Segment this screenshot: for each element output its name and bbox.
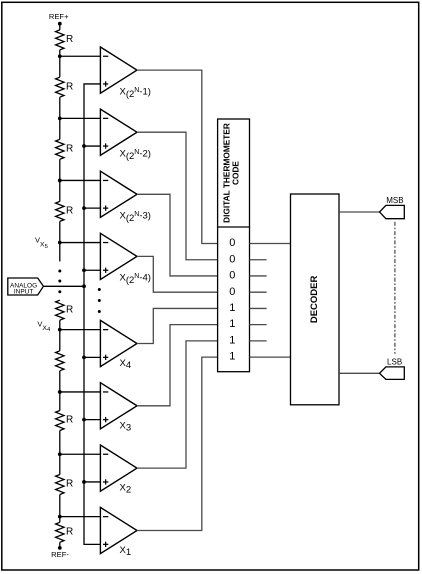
junction dot bus at X(2^N-3) + input: [82, 206, 86, 210]
digital thermometer code block: [218, 119, 250, 372]
svg-text:1: 1: [229, 351, 235, 363]
op-amp comparator X(2^N-1): [100, 47, 137, 93]
junction dot bus at X4 + input: [82, 355, 86, 359]
svg-text:R: R: [66, 144, 73, 155]
wire ANALOG INPUT to bus: [43, 285, 84, 287]
wire output of X(2^N-4) to thermometer row 4: [137, 256, 218, 292]
wire output of X2 to thermometer row 7: [137, 341, 218, 468]
wire thermometer row 4 output stub: [250, 291, 267, 293]
wire ladder segment 13 (y 370.8-391.9): [59, 371, 61, 392]
wire ladder segment 11 (y 320.2-329.8): [59, 320, 61, 330]
junction dot ladder tap to X3: [58, 390, 62, 394]
junction dot ladder node VX5 tap: [58, 241, 62, 245]
wire ladder segment 7 (y 180.4-201.4): [59, 180, 61, 201]
svg-text:MSB: MSB: [386, 196, 403, 205]
wire output of X1 to thermometer row 8: [137, 357, 218, 530]
svg-text:1: 1: [229, 318, 235, 330]
wire output of X(2^N-1) to thermometer row 1: [137, 70, 218, 243]
divider line of thermometer block: [218, 226, 250, 228]
wire + input stub of X2: [84, 481, 100, 483]
wire decoder to MSB flag: [339, 211, 380, 213]
junction dot ladder tap to X2: [58, 452, 62, 456]
wire ladder segment 17 (y 494.5-516.6): [59, 495, 61, 517]
wire ladder segment 9 (y 242.5-261.4): [59, 243, 61, 262]
ladder continuation ellipsis dot 3: [58, 290, 61, 293]
dashed range line between MSB and LSB: [394, 222, 396, 354]
wire output of X(2^N-3) to thermometer row 3: [137, 194, 218, 276]
junction dot bus at X(2^N-4) + input: [82, 268, 86, 272]
svg-text:R: R: [66, 415, 73, 426]
junction dot bus at X2 + input: [82, 480, 86, 484]
junction dot bus at analog input feed: [82, 284, 86, 288]
decoder block: [291, 194, 340, 405]
op-amp comparator X1: [100, 507, 137, 553]
wire - input stub of X(2^N-4): [60, 242, 101, 244]
comparator column ellipsis dot 2: [98, 299, 101, 302]
wire - input stub of X2: [60, 453, 101, 455]
wire ladder segment 18 (y 516.6-522.3): [59, 517, 61, 523]
wire + input stub of X3: [84, 419, 100, 421]
wire ladder segment 6 (y 159.3-180.4): [59, 159, 61, 180]
op-amp comparator X(2^N-3): [100, 171, 137, 217]
wire + input stub of X(2^N-2): [84, 145, 100, 147]
resistor ladder #4: [56, 201, 64, 221]
wire analog input bus: [84, 84, 100, 544]
wire thermometer row 2 output stub: [250, 259, 267, 261]
wire - input stub of X1: [60, 516, 101, 518]
wire ladder segment 19 (y 542.3-547.9): [59, 542, 61, 548]
MSB output flag: [380, 205, 405, 218]
wire + input stub of X(2^N-3): [84, 207, 100, 209]
svg-text:CODE: CODE: [231, 161, 241, 185]
svg-text:DECODER: DECODER: [309, 276, 320, 324]
comparator column ellipsis dot 3: [98, 310, 101, 313]
junction dot ladder tap to X(2^N-2): [58, 116, 62, 120]
resistor ladder #5: [56, 300, 64, 320]
wire ladder segment 16 (y 454.2-474.5): [59, 454, 61, 474]
svg-text:1: 1: [229, 335, 235, 347]
svg-text:R: R: [66, 304, 73, 315]
op-amp comparator X2: [100, 445, 137, 491]
op-amp comparator X(2^N-4): [100, 233, 137, 279]
resistor ladder #7: [56, 411, 64, 431]
wire - input stub of X(2^N-1): [60, 55, 101, 57]
junction dot ladder node VX4 tap: [58, 328, 62, 332]
resistor ladder #8: [56, 475, 64, 495]
wire thermometer row 3 output stub: [250, 275, 267, 277]
op-amp comparator X(2^N-2): [100, 109, 137, 155]
resistor ladder #6: [56, 351, 64, 371]
wire ladder segment 12 (y 329.8-350.8): [59, 330, 61, 351]
wire + input stub of X(2^N-4): [84, 269, 100, 271]
wire output of X4 to thermometer row 5: [137, 308, 218, 343]
wire ladder segment 8 (y 221.4-242.5): [59, 221, 61, 242]
svg-text:INPUT: INPUT: [14, 289, 34, 296]
wire - input stub of X(2^N-3): [60, 179, 101, 181]
wire ladder segment 2 (y 49.9-56.2): [59, 50, 61, 56]
comparator column ellipsis dot 1: [98, 288, 101, 291]
svg-text:0: 0: [229, 253, 235, 265]
wire ladder segment 5 (y 118.3-139.3): [59, 118, 61, 139]
op-amp comparator X4: [100, 320, 137, 366]
junction dot bus at X(2^N-2) + input: [82, 144, 86, 148]
resistor ladder #1: [56, 30, 64, 50]
label DIGITAL THERMOMETER CODE: [222, 123, 241, 223]
wire ladder segment 15 (y 430.5-454.2): [59, 431, 61, 455]
junction dot bus at X3 + input: [82, 418, 86, 422]
wire ladder segment 1 (y 23.7-29.9): [59, 24, 61, 30]
svg-text:R: R: [66, 479, 73, 490]
ANALOG INPUT flag: [8, 278, 44, 295]
junction dot ladder tap to X1: [58, 515, 62, 519]
wire + input stub of X4: [84, 356, 100, 358]
wire - input stub of X(2^N-2): [60, 117, 101, 119]
wire thermometer row 6 output stub: [250, 324, 267, 326]
node REF- terminal: [58, 546, 62, 550]
wire thermometer row 8 to decoder: [250, 356, 291, 358]
resistor ladder #3: [56, 139, 64, 159]
wire - input stub of X3: [60, 391, 101, 393]
svg-text:R: R: [66, 206, 73, 217]
wire ladder segment 3 (y 56.2-77.2): [59, 56, 61, 77]
LSB output flag: [380, 367, 405, 380]
junction dot ladder tap to X(2^N-3): [58, 179, 62, 183]
wire ladder segment 4 (y 97.2-118.3): [59, 97, 61, 118]
svg-text:REF+: REF+: [49, 12, 69, 21]
wire output of X3 to thermometer row 6: [137, 325, 218, 406]
wire thermometer row 1 to decoder: [250, 243, 291, 245]
op-amp comparator X3: [100, 383, 137, 429]
svg-text:1: 1: [229, 302, 235, 314]
wire - input stub of X4: [60, 329, 101, 331]
wire ladder segment 14 (y 391.9-410.5): [59, 392, 61, 411]
svg-text:LSB: LSB: [387, 358, 402, 367]
ladder continuation ellipsis dot 2: [58, 280, 61, 283]
svg-text:R: R: [66, 527, 73, 538]
resistor ladder #9: [56, 522, 64, 542]
svg-text:0: 0: [229, 270, 235, 282]
svg-text:R: R: [66, 81, 73, 92]
svg-text:REF-: REF-: [51, 550, 69, 559]
junction dot ladder tap to X(2^N-1): [58, 54, 62, 58]
svg-text:R: R: [66, 34, 73, 45]
svg-text:0: 0: [229, 286, 235, 298]
ladder continuation ellipsis dot 1: [58, 270, 61, 273]
wire thermometer row 7 output stub: [250, 340, 267, 342]
wire ladder segment 10 (y 300.0-300.2): [59, 299, 61, 301]
node REF+ terminal: [58, 22, 62, 26]
wire decoder to LSB flag: [339, 372, 380, 374]
wire output of X(2^N-2) to thermometer row 2: [137, 132, 218, 260]
wire thermometer row 5 output stub: [250, 307, 267, 309]
svg-text:0: 0: [229, 237, 235, 249]
resistor ladder #2: [56, 77, 64, 97]
